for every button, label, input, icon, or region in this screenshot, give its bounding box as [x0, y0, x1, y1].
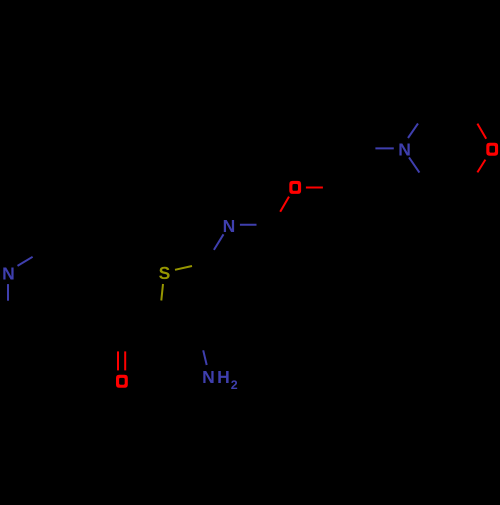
wire: amine N2 bond up — [203, 350, 207, 365]
wire: ether O2 bond down-left — [280, 197, 289, 212]
svg-text:N: N — [223, 216, 236, 236]
svg-text:H: H — [217, 367, 230, 387]
svg-text:S: S — [159, 263, 171, 283]
svg-text:N: N — [202, 367, 215, 387]
wire: carbonyl C=O double bond line 1 — [117, 351, 119, 370]
wire: imine N3 bond down-left — [214, 234, 224, 250]
wire: imine N3 bond right — [240, 224, 257, 226]
svg-text:2: 2 — [231, 378, 238, 392]
node O2: ether oxygen label — [289, 181, 301, 194]
wire: pyridine N1 bond up-right — [18, 257, 33, 266]
svg-text:N: N — [398, 139, 411, 159]
wire: pyridine N1 bond down — [7, 284, 9, 301]
wire: ether O2 bond right — [306, 187, 323, 189]
wire: morpholine N4 bond left — [375, 147, 393, 149]
wire: carbonyl C=O double bond line 2 — [124, 351, 126, 370]
wire: morpholine N4 bond down-right — [409, 157, 419, 172]
node O1: ketone oxygen label — [116, 375, 128, 388]
wire: morpholine O3 bond up-left — [477, 124, 486, 139]
wire: thiophene S1 bond right — [175, 266, 192, 270]
wire: morpholine N4 bond up-right — [408, 124, 418, 139]
svg-text:N: N — [2, 264, 15, 284]
wire: morpholine O3 bond down-left — [477, 160, 485, 173]
node N2: amino group NH2 label — [202, 367, 238, 392]
wire: thiophene S1 bond down — [161, 284, 163, 301]
node O3: morpholine oxygen label — [486, 143, 498, 156]
